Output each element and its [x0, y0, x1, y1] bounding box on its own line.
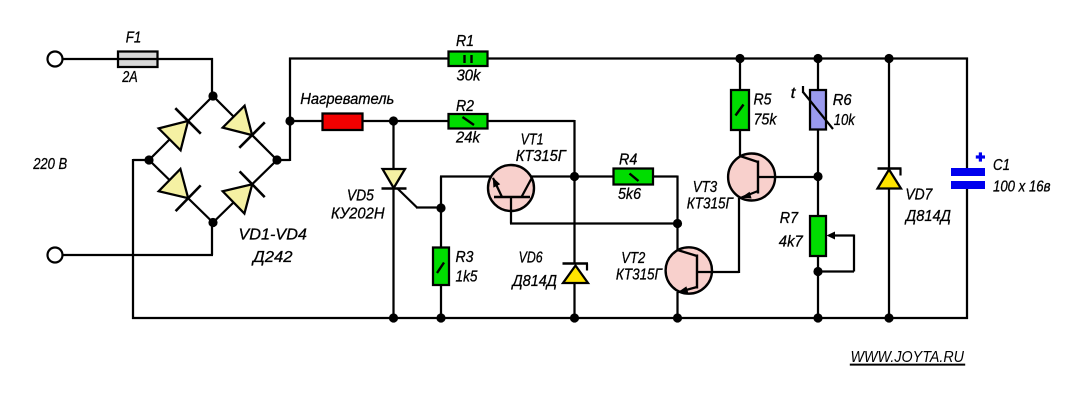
junction: VD7 on bottom rail	[884, 313, 893, 322]
junction: bridge left vertex	[144, 155, 153, 164]
resistor R2	[449, 114, 488, 129]
svg-text:1k5: 1k5	[456, 269, 478, 286]
svg-text:Д814Д: Д814Д	[511, 273, 557, 290]
heater element (Нагреватель)	[323, 114, 363, 131]
junction: VT1 base / R4 / VT2 collector node	[673, 219, 682, 228]
svg-text:75k: 75k	[754, 112, 778, 129]
junction: bridge bottom vertex	[208, 218, 217, 227]
svg-text:F1: F1	[126, 30, 142, 47]
junction: VT2 emitter on bottom rail	[673, 313, 682, 322]
wire: node to R4	[575, 175, 614, 177]
svg-text:10k: 10k	[834, 112, 856, 129]
svg-text:КТ315Г: КТ315Г	[687, 196, 734, 213]
svg-text:2A: 2A	[121, 69, 137, 86]
svg-text:Д814Д: Д814Д	[904, 208, 951, 225]
svg-text:R4: R4	[619, 152, 637, 169]
wire: heater row from riser junction	[290, 120, 323, 122]
thyristor VD5	[382, 121, 442, 319]
wire: bridge left vertex to bottom rail	[133, 159, 149, 319]
junction: VT3 base / R6 / R7 node	[813, 172, 822, 181]
resistor R1	[449, 52, 488, 67]
junction: VD7 on top rail	[884, 54, 893, 63]
thermistor R6	[803, 59, 833, 178]
capacitor C1	[951, 152, 985, 189]
svg-text:R1: R1	[456, 33, 474, 50]
svg-text:4k7: 4k7	[779, 234, 804, 251]
diode VD2 (upper-right arm)	[223, 106, 265, 148]
wire: terminal 2 to bridge bottom	[63, 222, 213, 256]
svg-text:Нагреватель: Нагреватель	[300, 91, 394, 108]
junction: riser / heater node	[285, 116, 294, 125]
svg-text:R5: R5	[754, 92, 772, 109]
transistor VT2	[666, 247, 739, 319]
wire: R2 to VT1 collector node	[488, 120, 575, 177]
zener VD7	[878, 59, 902, 320]
junction: R2 / VT1 collector / VD6 / R4 node	[570, 172, 579, 181]
svg-text:R3: R3	[456, 249, 474, 266]
junction: VD5 gate / R3 / VT1 emitter node	[436, 203, 445, 212]
svg-text:t: t	[791, 85, 796, 102]
svg-text:VD7: VD7	[905, 187, 933, 204]
svg-text:КУ202Н: КУ202Н	[331, 206, 385, 223]
svg-text:КТ315Г: КТ315Г	[616, 267, 663, 284]
svg-text:КТ315Г: КТ315Г	[516, 148, 567, 165]
bridge rectifier VD1-VD4 frame	[149, 96, 277, 223]
junction: VD6 on bottom rail	[570, 313, 579, 322]
transistor VT1	[488, 165, 534, 224]
wire: bridge right vertex riser to top rail	[277, 58, 290, 162]
junction: bridge top vertex	[208, 91, 217, 100]
diode VD1 (upper-left arm)	[159, 108, 201, 150]
svg-text:R2: R2	[456, 98, 474, 115]
wire: R4 to VT2 collector drop	[653, 176, 678, 251]
wire: VT1 base run	[510, 222, 679, 224]
wire: VT1 collector to R4 row	[531, 175, 575, 177]
terminal: AC input bottom	[48, 248, 63, 263]
wire: heater to R2	[363, 120, 449, 122]
fuse F1	[118, 52, 158, 68]
wire: from terminal 1 through fuse to bridge top	[63, 58, 213, 97]
diode VD3 (lower-left arm)	[159, 169, 201, 211]
junction: R5 on top rail	[735, 54, 744, 63]
zener VD6	[563, 177, 589, 320]
svg-text:VT1: VT1	[521, 132, 544, 149]
svg-text:VT2: VT2	[621, 250, 645, 267]
junction: R7 on bottom rail	[813, 313, 822, 322]
wire: top rail (plus bus)	[289, 57, 968, 59]
terminal: AC input top	[48, 52, 63, 67]
resistor R5	[731, 59, 749, 157]
svg-text:WWW.JOYTA.RU: WWW.JOYTA.RU	[851, 349, 965, 366]
wire: bottom rail (minus bus)	[132, 317, 968, 319]
junction: heater / VD5 anode node	[389, 116, 398, 125]
svg-text:VD6: VD6	[519, 250, 543, 267]
junction: R6 on top rail	[813, 54, 822, 63]
junction: bridge right vertex	[272, 155, 281, 164]
svg-text:C1: C1	[993, 157, 1010, 174]
wire: gate node riser to VT1 emitter	[440, 177, 492, 209]
transistor VT3	[728, 154, 818, 201]
wire: VT2 base to VT3 emitter	[738, 198, 740, 273]
svg-text:R7: R7	[780, 210, 799, 227]
junction: R7 wiper tie	[813, 267, 822, 276]
svg-text:100 x 16в: 100 x 16в	[993, 179, 1051, 196]
resistor R3	[433, 208, 449, 319]
svg-text:24k: 24k	[455, 130, 481, 147]
junction: VD5 cathode on bottom rail	[389, 313, 398, 322]
svg-text:5k6: 5k6	[618, 186, 641, 203]
svg-text:R6: R6	[833, 92, 852, 109]
junction: R3 on bottom rail	[436, 313, 445, 322]
svg-text:VD5: VD5	[347, 188, 374, 205]
resistor R4	[614, 169, 654, 185]
svg-text:VT3: VT3	[693, 179, 718, 196]
svg-text:Д242: Д242	[251, 249, 293, 266]
wire: C1 branch verticals	[966, 58, 968, 320]
diode VD4 (lower-right arm)	[223, 171, 265, 213]
svg-text:220 В: 220 В	[32, 156, 67, 173]
potentiometer R7	[810, 177, 854, 320]
svg-text:30k: 30k	[457, 68, 482, 85]
svg-text:VD1-VD4: VD1-VD4	[239, 227, 308, 244]
